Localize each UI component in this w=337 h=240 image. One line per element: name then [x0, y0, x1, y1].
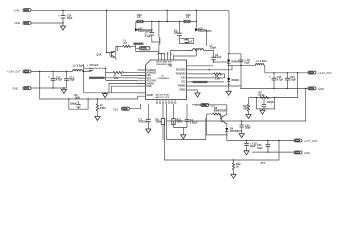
IC U1 pin numbers bottom: [156, 102, 177, 104]
connector J2 GND (input): [15, 21, 32, 25]
wire output2 rail: [265, 72, 308, 74]
ground (left of IC): [102, 92, 107, 97]
svg-text:23: 23: [160, 54, 162, 56]
svg-text:+VIN: +VIN: [14, 8, 20, 12]
wire GND out2 rail: [241, 87, 308, 89]
capacitor C13: [64, 71, 75, 88]
svg-text:25: 25: [167, 54, 169, 56]
capacitor C20: [255, 140, 271, 153]
capacitor C15: [48, 71, 63, 89]
connector J1 +VIN: [14, 8, 32, 12]
wire GND out1 rail: [31, 87, 67, 89]
wire VTT gnd rail: [252, 151, 294, 153]
IC U1 top pin labels: [157, 62, 172, 80]
capacitor C10: [84, 64, 99, 93]
svg-text:10µF: 10µF: [67, 17, 73, 20]
svg-text:Q1A: Q1A: [97, 54, 102, 57]
resistor R21: [172, 104, 183, 128]
inductor L4: [255, 60, 266, 73]
IC U1 pin names: [147, 66, 187, 97]
resistor R7: [96, 98, 106, 116]
svg-text:GND: GND: [318, 87, 324, 91]
resistor R8: [259, 92, 269, 99]
wire VIN drop at x106.5: [106, 10, 108, 52]
capacitor C16: [58, 10, 73, 24]
ground (diodes): [226, 91, 231, 95]
svg-text:FB2: FB2: [181, 78, 186, 80]
ground (out1): [61, 87, 66, 93]
wire bus feed: [166, 10, 168, 21]
wire left pin bends: [109, 75, 146, 92]
svg-text:FB1: FB1: [147, 75, 152, 77]
svg-text:11: 11: [159, 102, 161, 104]
IC U1 top pins: [159, 56, 174, 61]
svg-text:10µF: 10µF: [244, 61, 250, 64]
wire sgnd row: [84, 92, 146, 94]
diode D2: [195, 10, 212, 46]
svg-text:SGND: SGND: [147, 95, 154, 97]
IC U1 bottom pin labels: [156, 95, 170, 100]
svg-text:SHDN2: SHDN2: [178, 86, 186, 88]
svg-text:100k: 100k: [156, 121, 162, 124]
IC U1 right pins: [187, 66, 193, 90]
svg-text:PGOOD1: PGOOD1: [147, 70, 157, 72]
IC U1 pin numbers top: [157, 54, 174, 56]
svg-text:1.0k: 1.0k: [114, 77, 119, 80]
resistor R5: [68, 94, 89, 100]
svg-text:10: 10: [156, 102, 158, 104]
wire gnd bus right: [167, 88, 306, 121]
svg-text:14: 14: [169, 102, 171, 104]
connector J6 GND out2: [308, 87, 324, 91]
svg-text:0.047µF: 0.047µF: [139, 121, 149, 124]
svg-text:GND: GND: [15, 21, 21, 25]
svg-text:GND: GND: [304, 151, 310, 155]
IC U1 bottom pins: [157, 100, 175, 105]
wire output1 rail: [31, 70, 73, 72]
svg-text:10µF: 10µF: [257, 147, 263, 150]
capacitor C4: [185, 104, 198, 128]
wire top pin routes: [136, 51, 197, 57]
svg-text:1: 1: [173, 54, 174, 56]
svg-text:GND2: GND2: [179, 90, 186, 92]
wire boot bus y21.5: [136, 21, 197, 23]
resistor R18: [184, 14, 191, 23]
svg-text:220pF: 220pF: [70, 103, 78, 106]
svg-text:100k: 100k: [75, 96, 81, 99]
svg-text:+VTT_OUT: +VTT_OUT: [304, 139, 318, 143]
ground (right of IC): [195, 93, 200, 97]
svg-text:1µF: 1µF: [188, 41, 193, 44]
svg-text:10µF: 10µF: [69, 79, 75, 82]
svg-text:10µF: 10µF: [290, 79, 296, 82]
svg-text:PGOOD2: PGOOD2: [176, 70, 186, 72]
ground (comp loop): [181, 128, 186, 139]
transistor Q1: [97, 46, 118, 60]
svg-text:RUN/SS2: RUN/SS2: [176, 74, 187, 76]
resistor R19: [137, 14, 143, 23]
inductor L2: [73, 64, 92, 72]
capacitor C14: [269, 72, 284, 89]
resistor R1: [106, 72, 138, 80]
diode D3: [227, 53, 239, 91]
resistor R12: [232, 159, 241, 173]
ground (C3): [146, 129, 151, 133]
IC U1 outline: [146, 60, 187, 100]
svg-text:MMBT2907: MMBT2907: [214, 109, 227, 112]
svg-text:SS2 VC1 VC2: SS2 VC1 VC2: [156, 97, 170, 99]
connector J3 +VOUT1: [7, 70, 31, 74]
wire SW2 to output: [229, 64, 256, 66]
connector SD1: [113, 104, 141, 111]
connector J5 +3.3V_OUT: [308, 71, 332, 75]
wire SW1 to L1: [116, 46, 118, 51]
wire FB2 sense: [249, 73, 298, 98]
svg-text:0.1µF: 0.1µF: [145, 35, 152, 38]
svg-text:20k: 20k: [243, 108, 248, 111]
svg-text:LT3508EUF: LT3508EUF: [158, 78, 170, 80]
diode D4: [227, 78, 239, 85]
IC U1 left pins: [138, 70, 146, 93]
capacitor C19: [244, 140, 257, 151]
svg-text:1µF: 1µF: [174, 32, 179, 35]
capacitor C6: [174, 21, 182, 39]
resistor R14: [118, 40, 136, 48]
svg-text:6.81k: 6.81k: [100, 107, 107, 110]
ground (R7): [95, 117, 100, 121]
svg-text:SW2 BST2 IND: SW2 BST2 IND: [157, 64, 172, 66]
ground (sd2 area): [227, 96, 229, 99]
diode D5: [225, 127, 243, 140]
wire VIN rail top: [31, 10, 229, 54]
svg-text:0.01µF: 0.01µF: [190, 121, 198, 124]
connector J8 GND VTT: [294, 151, 310, 155]
wire Q3 collector: [192, 104, 227, 106]
capacitor C9: [213, 54, 229, 63]
capacitor C17 (feedfwd): [69, 99, 88, 109]
svg-text:GND: GND: [147, 86, 152, 88]
wire FB1 sense: [40, 71, 146, 99]
inductor L3: [186, 44, 216, 62]
capacitor C18 (feedfwd 2): [256, 97, 276, 114]
svg-text:10pF: 10pF: [245, 127, 251, 130]
wire D1 anode drop: [135, 22, 137, 30]
svg-text:1.0k: 1.0k: [215, 77, 220, 80]
svg-text:24: 24: [164, 54, 166, 56]
ground (input): [60, 23, 65, 30]
transistor Q3: [207, 105, 228, 128]
capacitor C12: [285, 72, 296, 89]
wire left bundle: [84, 68, 138, 80]
ground (C19): [244, 151, 249, 155]
diode D1: [135, 28, 152, 33]
svg-text:2.2µH: 2.2µH: [210, 47, 217, 50]
svg-text:+3.3V_OUT: +3.3V_OUT: [318, 71, 332, 75]
svg-text:RUN/SS1: RUN/SS1: [147, 73, 158, 75]
svg-text:VC2: VC2: [181, 82, 186, 84]
resistor R9: [156, 104, 165, 140]
svg-text:3.3µH: 3.3µH: [260, 60, 267, 63]
node RUN/SS2 label: [193, 81, 208, 83]
svg-text:16: 16: [175, 102, 177, 104]
ground (R10): [246, 115, 251, 119]
svg-text:SS1 RT SYNC: SS1 RT SYNC: [156, 95, 170, 97]
resistor R2: [214, 73, 225, 81]
svg-text:+1.8V_OUT: +1.8V_OUT: [7, 70, 21, 74]
svg-text:0.1µF: 0.1µF: [215, 56, 222, 59]
capacitor C7 boost1: [145, 21, 159, 42]
svg-text:22: 22: [157, 54, 159, 56]
svg-text:B340A: B340A: [232, 61, 240, 64]
inductor (boost squiggle): [158, 21, 160, 54]
svg-text:SD1: SD1: [113, 107, 119, 111]
ground (R12): [233, 173, 235, 174]
wire comp loop ch1: [167, 104, 206, 140]
svg-text:VC1: VC1: [147, 78, 152, 80]
svg-text:4.7µF: 4.7µF: [277, 79, 284, 82]
svg-text:VTT: VTT: [261, 162, 266, 165]
svg-text:BAT54HT1: BAT54HT1: [230, 130, 243, 133]
capacitor C2: [229, 54, 251, 89]
wire VTT rail: [227, 140, 294, 142]
wire Q3 base loop: [207, 114, 227, 135]
capacitor C22 (bus bypass): [239, 120, 251, 137]
capacitor C8 loop: [180, 38, 194, 43]
wire GND input: [31, 22, 63, 24]
svg-text:BAT54HT1: BAT54HT1: [200, 30, 213, 33]
node RUN/SS1 label: [89, 77, 138, 79]
svg-text:3.3µH: 3.3µH: [77, 64, 84, 67]
svg-text:RT/SYNC: RT/SYNC: [147, 81, 157, 83]
svg-text:1µF: 1µF: [94, 64, 99, 67]
svg-text:B340A: B340A: [232, 79, 240, 82]
connector J7 VTT: [294, 139, 318, 143]
svg-text:26: 26: [170, 54, 172, 56]
wire right pin routes: [192, 65, 241, 93]
svg-text:GND: GND: [13, 87, 19, 91]
svg-text:100pF: 100pF: [267, 101, 275, 104]
node PGOOD: [133, 43, 150, 52]
svg-text:4.7µF: 4.7µF: [56, 79, 63, 82]
capacitor C3: [139, 104, 151, 129]
resistor R10: [243, 98, 250, 115]
connector J4 GND out1: [13, 87, 32, 91]
wire bottom return bus: [165, 118, 280, 160]
connector SD2: [196, 104, 216, 108]
